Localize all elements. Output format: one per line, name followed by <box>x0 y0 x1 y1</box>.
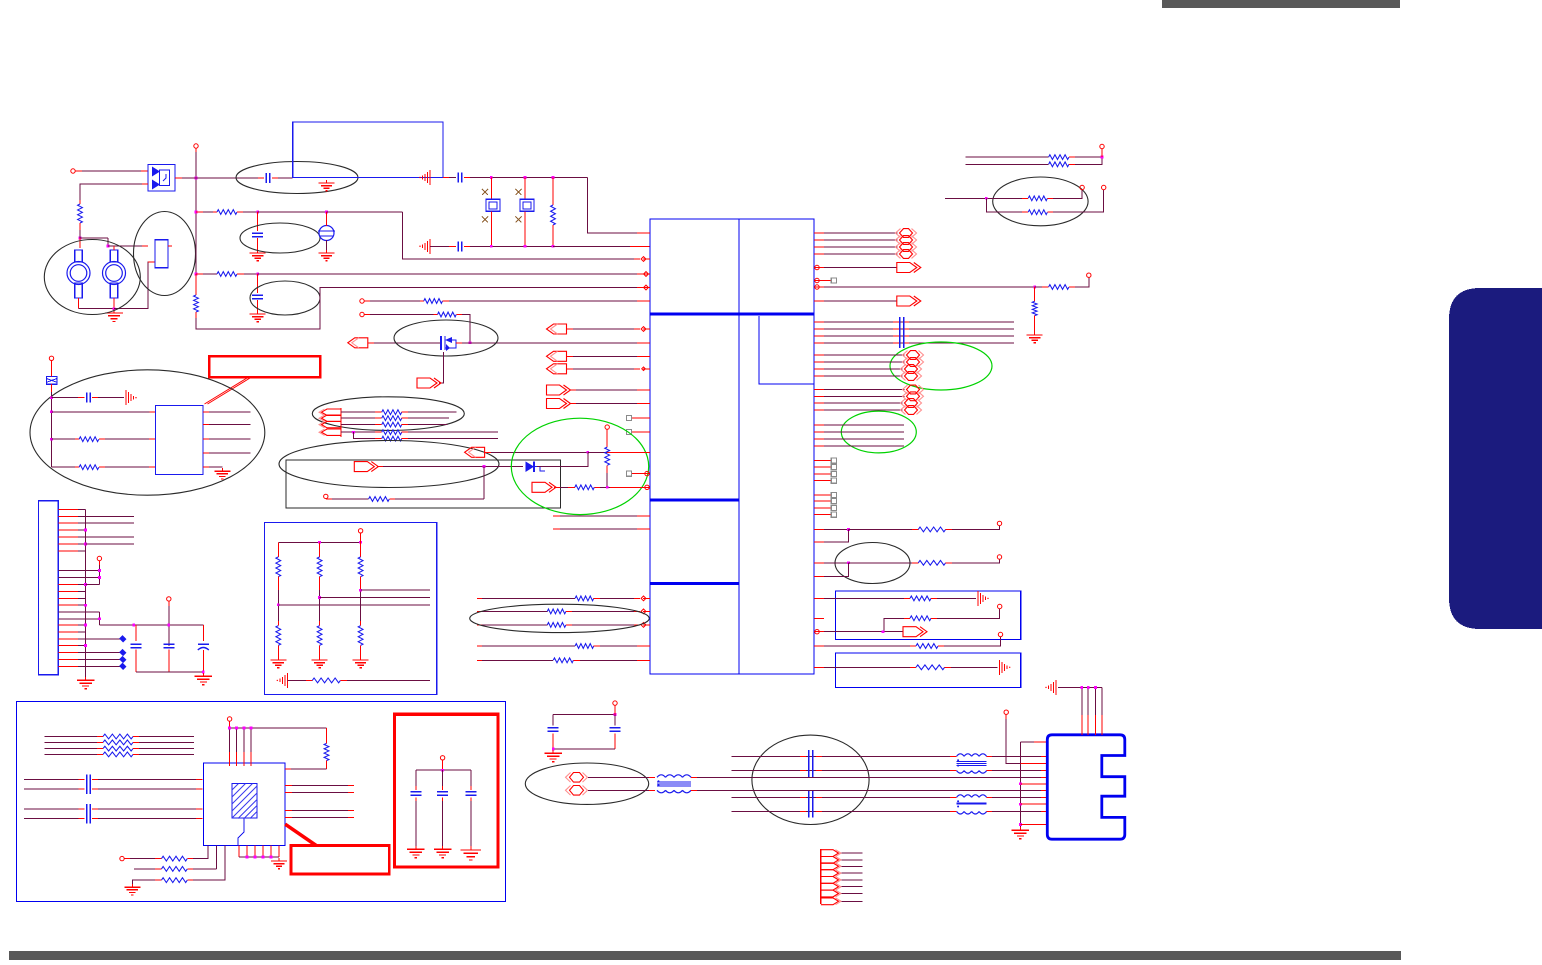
hex connector H3 <box>896 243 917 252</box>
resistor R26 <box>1049 162 1069 167</box>
wire TR2a <box>945 197 1028 199</box>
wire row598Lb <box>594 597 640 599</box>
resistor R22 <box>910 616 931 621</box>
wire busA4 <box>824 342 1014 344</box>
resistor R33 <box>162 867 188 872</box>
ellipse highlight TR <box>993 177 1088 226</box>
rj45 top pins <box>1058 686 1102 735</box>
resistor R10 <box>312 678 340 683</box>
diode D2 <box>526 461 546 472</box>
resistor R17 <box>575 644 594 649</box>
ellipse highlight lan-in <box>525 763 648 804</box>
cap C3 lead2 <box>257 300 259 311</box>
U3 crystal hatch <box>232 784 257 846</box>
U2 out2 <box>203 424 250 426</box>
pin diamond row598 <box>641 596 646 601</box>
comparator U2 box <box>155 405 203 474</box>
arrow AR1 gate <box>417 378 441 388</box>
wire B1 row2b <box>931 609 1000 618</box>
clock pair B <box>24 804 203 824</box>
junction TR2 <box>985 197 988 200</box>
wire TR2b out <box>1047 190 1103 212</box>
node P6 pin <box>167 597 171 606</box>
circle highlight lan <box>752 735 869 824</box>
wire TR2b <box>986 198 1028 212</box>
capacitor C8 <box>163 644 174 672</box>
ellipse highlight resarray <box>312 397 464 431</box>
hex connector H4 <box>896 250 917 259</box>
wire TR2a out <box>1047 190 1082 198</box>
P6 drop <box>168 606 170 646</box>
fuse F1 <box>47 366 57 384</box>
xtal Y2 bottom lead <box>524 211 526 246</box>
junction DD2 <box>483 465 486 468</box>
pin diamond row369 <box>642 367 646 371</box>
lan w1 <box>732 755 957 757</box>
wire row2 cont2 <box>327 211 403 213</box>
node P7 pin <box>358 529 362 538</box>
lan cap pair lower <box>809 791 813 818</box>
lan w2 <box>732 770 957 772</box>
node P20 pin <box>440 756 444 765</box>
wire det row2 <box>52 438 80 440</box>
U3 top rail <box>228 727 326 730</box>
arrow AL2 <box>547 324 641 334</box>
clock pair A <box>24 775 203 795</box>
wire VIN row3 <box>196 273 217 275</box>
arrow AR5 <box>532 482 575 492</box>
wire gnd row3 <box>132 880 161 884</box>
IC right pin stubs <box>814 233 824 667</box>
resistor R4 vertical <box>194 274 199 318</box>
junction R2b <box>325 211 328 214</box>
junction TR3 <box>1033 286 1036 289</box>
node P10 pin <box>997 521 1001 525</box>
wire row287 res <box>1035 286 1049 288</box>
wire row542 <box>824 529 848 542</box>
arrow AR6 <box>897 263 921 273</box>
pin diamond row287 <box>644 285 649 290</box>
wire busA2 <box>824 328 1014 330</box>
wire hex4 <box>824 253 898 255</box>
node VIN pin <box>194 144 198 152</box>
junction R3a <box>256 273 259 276</box>
lan cap loop <box>553 710 616 716</box>
ground G8 <box>214 468 230 479</box>
xmark Y1a <box>482 189 488 195</box>
ground GRN3 <box>353 657 369 668</box>
wire Q1 to IC <box>470 342 643 344</box>
resistor R32 <box>162 856 188 861</box>
box B2 outline <box>836 653 1021 688</box>
resistor R13 <box>575 485 595 490</box>
pin circle row487 <box>645 485 649 489</box>
wire gre3 <box>824 438 904 440</box>
main IC divider vertical <box>738 219 740 674</box>
wire row3 to IC <box>258 273 643 275</box>
wire R33 out <box>187 868 216 870</box>
wire row529 out <box>946 526 1000 530</box>
pin circle row267 <box>815 265 824 269</box>
resbox out3 <box>278 604 430 606</box>
junction AD2 <box>50 410 53 413</box>
resarray row4 <box>341 430 498 435</box>
red box outline <box>395 714 499 867</box>
rj45 connector J2 <box>1047 735 1125 839</box>
junction RN3 <box>359 589 362 592</box>
wire RN1 mid <box>277 590 279 626</box>
hex connector H2 <box>896 236 917 245</box>
junction RN1 <box>277 603 280 606</box>
wire R13 to IC <box>594 486 644 488</box>
junction R2a <box>256 211 259 214</box>
hex connector HD2 <box>903 392 924 401</box>
wire jack to module return <box>114 262 155 309</box>
gnd tap G6 <box>419 239 430 254</box>
junction R13 <box>606 486 609 489</box>
wire hexB2 <box>824 361 905 363</box>
wire TR pair1b out <box>1069 157 1102 164</box>
wire row624L <box>477 624 547 626</box>
resbox out1 <box>361 589 430 591</box>
bus J1 vertical <box>85 509 87 677</box>
resistor R20 <box>918 560 945 565</box>
wire bottomloop <box>326 498 369 500</box>
wire TR pair1a out <box>1069 156 1102 158</box>
wire det row1 <box>52 411 156 413</box>
pin diamond row329 <box>641 327 646 332</box>
rail adapter <box>51 392 53 467</box>
node P3 pin <box>360 312 370 316</box>
clockgen box outline <box>17 702 506 902</box>
junction A <box>79 230 82 239</box>
junction X6 <box>552 245 555 248</box>
resistor box outline <box>264 523 436 695</box>
wire bottomloop2 <box>389 498 484 500</box>
lan cap left <box>548 715 559 750</box>
capacitor C4 <box>458 173 462 183</box>
wire row631 <box>824 630 903 633</box>
node P18 pin <box>227 717 231 728</box>
mosfet Q1 <box>441 336 456 351</box>
hex connector HE2 <box>901 406 922 415</box>
module X1 box <box>155 240 168 268</box>
IC left pin stubs <box>643 233 650 660</box>
lan cap right <box>610 715 621 750</box>
wire row598L <box>477 597 575 599</box>
main IC thick bar3 <box>650 582 739 585</box>
crystal Y1 <box>486 199 500 211</box>
resistor R18 <box>553 658 573 663</box>
rj45 pin stubs <box>1041 756 1048 824</box>
wire B1 row1 <box>824 597 910 599</box>
U2 out3 <box>203 438 250 440</box>
comb wires <box>841 853 862 901</box>
nc pin row432 <box>626 429 643 434</box>
resistor R24 <box>916 665 945 670</box>
wire VIN row1 <box>196 177 264 179</box>
hex connector HL2 <box>566 786 588 796</box>
resistor RN3b <box>358 621 363 657</box>
wire TR pair1a <box>965 156 1048 158</box>
gnd tap G5 <box>419 170 430 185</box>
resistor R1 vertical <box>78 200 83 230</box>
pin circle row287r <box>815 285 824 289</box>
wire det row3 <box>52 466 80 468</box>
wire box to cap <box>443 177 456 179</box>
wire RN3 mid <box>360 590 362 626</box>
wire busA1 <box>824 321 1014 323</box>
transformer T1 <box>657 775 691 793</box>
resistor R11 <box>369 497 390 502</box>
IC right NC pins <box>814 458 836 517</box>
black box outline <box>286 460 560 508</box>
ellipse highlight adapter <box>30 370 265 495</box>
wire row301b <box>443 300 644 302</box>
resistor R8 <box>79 437 99 442</box>
lan w4 <box>752 789 1048 791</box>
leader lines <box>205 378 251 404</box>
resistor R2 <box>217 210 237 215</box>
wire R12 down <box>606 473 608 487</box>
wire B1 row1b <box>931 597 976 599</box>
capacitor C5 <box>458 241 462 251</box>
wire row646rb <box>938 637 1001 646</box>
node P12 pin <box>998 604 1002 608</box>
ground jack <box>105 310 123 322</box>
wire row562 r <box>824 561 850 564</box>
wire row314 <box>370 314 438 316</box>
hex connector HE1 <box>901 399 922 408</box>
wire row646Lb <box>594 645 643 647</box>
junction B <box>107 245 110 248</box>
cap C2 lead <box>257 212 259 231</box>
nc pin row418 <box>626 415 643 420</box>
wire lan2 <box>588 789 655 791</box>
wire B2 row <box>824 666 916 668</box>
node P9 pin <box>605 425 609 434</box>
main IC thick bar2 <box>650 498 739 501</box>
resistor R25 <box>1049 155 1069 160</box>
wire gre2 <box>824 431 904 433</box>
jack pin L1 top lead <box>79 238 81 248</box>
arrow AL5 <box>465 447 485 457</box>
wire lanT3b <box>987 811 1048 813</box>
lan w5 <box>732 796 957 798</box>
wire row247 <box>553 245 650 247</box>
J1 long wire3 <box>86 536 134 538</box>
P5 drop <box>58 565 101 585</box>
wire row259 <box>327 211 403 213</box>
U2 out1 <box>203 411 250 413</box>
comb connector J3 <box>821 849 841 905</box>
rail VIN vertical <box>195 152 197 274</box>
junction VIN3 <box>195 273 198 276</box>
gnd tap G22 <box>1045 680 1056 695</box>
crystal Y2 <box>520 199 534 211</box>
resistor R27 <box>1028 196 1047 201</box>
ellipse highlight rows <box>470 604 650 632</box>
wire VIN row2 <box>196 211 217 213</box>
lan bus stubs <box>1020 742 1047 824</box>
resistor R5 vertical <box>551 178 556 247</box>
resistor R9 <box>79 465 99 470</box>
ground G3 <box>319 250 335 261</box>
wire hexC2 <box>824 375 903 377</box>
wire Q1 gate <box>439 352 443 383</box>
wire hexE1 <box>824 402 903 404</box>
wire R2 right <box>237 211 258 213</box>
wire row259 bend <box>403 212 641 259</box>
capacitor C3 <box>252 295 263 299</box>
node P8 pin <box>324 494 328 499</box>
node P14 pin <box>1100 144 1104 148</box>
ground G15 <box>271 858 287 869</box>
wire lanT2a <box>987 755 1048 757</box>
wire lanT3a <box>987 796 1048 798</box>
wire C1 to box <box>272 177 293 179</box>
resarray row5 <box>354 432 499 441</box>
top gray bar <box>1162 0 1400 8</box>
node P21 pin <box>613 701 617 710</box>
node P19 pin <box>120 856 130 860</box>
hex connector HB2 <box>903 358 924 367</box>
arrow AR2 <box>547 385 644 395</box>
cap C2 lead2 <box>257 238 259 250</box>
resistor R6 <box>424 299 443 304</box>
ground G4 <box>250 311 266 322</box>
red label box 1 <box>209 356 320 377</box>
junction AD3 <box>50 438 53 441</box>
connector J1 pins <box>58 509 85 666</box>
wire to module <box>108 245 148 247</box>
lan w3 <box>752 776 1048 778</box>
ellipse highlight jacks <box>44 240 140 315</box>
jack barrel L2 <box>103 250 126 298</box>
wire B2 rowb <box>945 666 998 668</box>
ellipse highlight row562 <box>835 543 910 584</box>
wire row529 r <box>824 528 850 531</box>
wire bridge lower-left <box>80 184 148 200</box>
cap C3 lead <box>257 274 259 293</box>
wire hexD1 <box>824 389 905 391</box>
wire lanT2b <box>987 770 1048 772</box>
lan gnd bus <box>1019 742 1022 827</box>
xtal Y2 top lead <box>524 178 526 200</box>
resistor RN2a <box>317 542 322 590</box>
wire row301r <box>824 300 897 302</box>
wire gre4 <box>824 445 904 447</box>
jack barrel L1 <box>67 250 90 298</box>
capacitor C2 <box>252 233 263 237</box>
wire gre1 <box>824 424 904 426</box>
arrow AR3 <box>547 399 644 409</box>
resistor R19 <box>918 527 945 532</box>
ellipse highlight blackbox <box>279 441 499 488</box>
wire to IC row452 <box>588 451 650 453</box>
resistor R16 <box>547 623 566 628</box>
resistor R14 <box>575 596 594 601</box>
J1 long wire1 <box>86 515 134 517</box>
wire hexB1 <box>824 354 905 356</box>
node P16 pin <box>1102 185 1106 189</box>
wire hex3 <box>824 246 898 248</box>
bracket connector J4 <box>319 408 341 437</box>
wire hex2 <box>824 239 898 241</box>
rail top resbox <box>278 538 362 544</box>
wire row660Lb <box>573 659 643 661</box>
wire row267 <box>824 267 897 269</box>
resistor R28 <box>1028 210 1047 215</box>
connector J1 box <box>39 501 59 675</box>
wire row2 cont <box>258 211 327 213</box>
ground G1 <box>319 180 335 191</box>
ellipse highlight C3 <box>250 281 320 315</box>
pin diamond row259 <box>641 257 646 262</box>
wire hex1 <box>824 232 898 234</box>
hex connector HL1 <box>566 773 588 783</box>
junction DD1 <box>586 451 589 454</box>
resistor R23 <box>916 644 938 649</box>
wire row562 out <box>946 559 1000 563</box>
resistor R3 <box>217 272 237 277</box>
resistor R31 vertical <box>324 728 329 769</box>
bus junctions <box>84 529 87 647</box>
wire lan2b <box>691 789 752 791</box>
resistor RN1b <box>276 621 281 657</box>
fuse lead <box>51 384 53 392</box>
wire mosfet drain <box>456 342 470 344</box>
clock res row1 <box>130 858 162 860</box>
arrow AR4 <box>354 462 378 472</box>
arrow AR8 <box>903 627 927 637</box>
U2 gnd <box>203 466 222 468</box>
wire module out <box>168 245 172 247</box>
J1 diamond wires 2 <box>86 649 127 670</box>
green ellipse 3 <box>841 411 916 453</box>
gnd tap G13 <box>1000 660 1011 675</box>
resistor R34 <box>162 878 188 883</box>
wire busA3 <box>824 335 1014 337</box>
ground G18 <box>434 846 452 858</box>
ellipse highlight module <box>134 212 196 296</box>
wire row314b <box>456 315 470 343</box>
resistor R15 <box>547 609 566 614</box>
U3 right pins <box>285 785 354 817</box>
junction TR1 <box>1101 156 1104 159</box>
xmark Y2b <box>516 217 522 223</box>
bus capacitor CB1 <box>900 317 904 348</box>
wire row287 out <box>1069 278 1089 288</box>
wire row660L <box>477 659 553 661</box>
vref V1 <box>318 212 335 250</box>
U3 bottom pins group <box>217 846 280 869</box>
wire row611Lb <box>566 610 640 612</box>
wire xtal rail <box>464 177 588 179</box>
wire row646L <box>477 645 575 647</box>
wire D2 to junction <box>537 452 588 466</box>
junction Q1D <box>469 341 472 344</box>
resistor R30 vertical <box>1032 287 1037 332</box>
wire AR4 right <box>377 466 523 468</box>
wire TR pair1b <box>965 163 1048 165</box>
resarray row1 <box>341 410 457 415</box>
wire to bridge <box>82 170 148 172</box>
red label box 2 <box>291 846 389 875</box>
diode bridge D1 <box>148 165 175 192</box>
wire row624Lb <box>566 624 640 626</box>
wire row611L <box>477 610 547 612</box>
